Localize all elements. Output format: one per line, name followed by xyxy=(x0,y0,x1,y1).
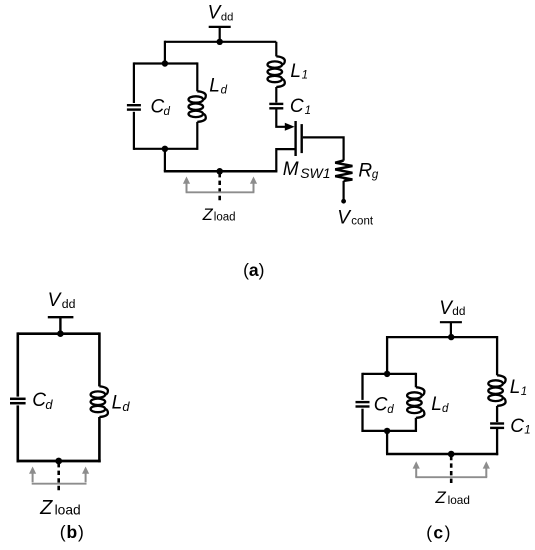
svg-text:d: d xyxy=(387,404,394,416)
svg-text:load: load xyxy=(448,493,470,507)
wire gate lead (a) xyxy=(303,137,344,160)
Zload arrow right (a) xyxy=(250,177,257,193)
wire L1 to C1 (c) xyxy=(496,406,498,422)
node Zload dashed stub (b) xyxy=(57,463,60,491)
svg-text:SW1: SW1 xyxy=(300,165,330,181)
wire C1 to drain (a) xyxy=(276,109,286,126)
caption (b) xyxy=(60,522,85,542)
svg-text:L: L xyxy=(209,75,220,96)
node Zload dashed stub (a) xyxy=(218,173,221,203)
caption (a) xyxy=(243,260,264,280)
svg-text:Z: Z xyxy=(434,488,446,507)
node Zload dashed stub (c) xyxy=(450,456,453,486)
svg-text:dd: dd xyxy=(452,304,465,318)
supply Vdd symbol (a) xyxy=(209,27,231,42)
svg-text:1: 1 xyxy=(521,386,527,398)
wire Rg to Vcont (a) xyxy=(343,181,345,200)
label C1 (a) xyxy=(290,96,311,117)
label Cd (b) xyxy=(32,390,53,412)
supply Vdd symbol (c) xyxy=(440,322,462,337)
wire Cd upper lead (a) xyxy=(133,62,135,103)
svg-text:C: C xyxy=(374,395,388,416)
label Vcont (a) xyxy=(337,207,374,228)
capacitor C1 (a) xyxy=(269,104,283,108)
label Ld (c) xyxy=(431,394,449,415)
wire inner top rail (a) xyxy=(134,62,197,64)
svg-text:V: V xyxy=(337,207,352,228)
inductor L1 (c) xyxy=(488,375,505,406)
svg-text:(b): (b) xyxy=(60,522,85,542)
wire inner bottom rail (c) xyxy=(363,430,416,432)
Zload bracket line (a) xyxy=(186,191,255,193)
svg-text:L: L xyxy=(510,377,521,398)
label C1 (c) xyxy=(510,416,530,437)
node junction top rail (a) xyxy=(217,39,223,45)
svg-text:(a): (a) xyxy=(243,260,264,280)
label Zload (a) xyxy=(202,206,236,224)
Zload arrow right (c) xyxy=(483,461,490,477)
label L1 (c) xyxy=(510,377,528,398)
svg-text:d: d xyxy=(164,106,171,118)
node terminal Vcont (a) xyxy=(341,199,346,204)
node junction bottom rail (b) xyxy=(55,458,62,465)
node junction bottom rail (a) xyxy=(216,168,223,175)
Zload arrow left (c) xyxy=(413,461,420,477)
wire Ld upper lead (b) xyxy=(98,332,101,386)
transistor M_SW1 gate bar (a) xyxy=(301,124,303,153)
svg-text:C: C xyxy=(32,390,46,411)
label Vdd (b) xyxy=(48,290,76,311)
wire L1 upper lead (a) xyxy=(275,42,277,57)
caption (c) xyxy=(426,522,452,542)
svg-text:R: R xyxy=(358,160,372,181)
wire top rail (a) xyxy=(165,41,276,43)
node junction inner top (a) xyxy=(162,60,168,66)
node junction bottom rail (c) xyxy=(448,451,455,458)
Zload bracket line (b) xyxy=(32,483,87,485)
wire left drop (a) xyxy=(164,41,166,64)
Zload bracket line (c) xyxy=(415,476,487,478)
wire stub to bottom rail (c) xyxy=(386,431,388,454)
wire Ld upper lead (a) xyxy=(196,62,198,91)
label Zload (b) xyxy=(39,497,81,519)
svg-text:g: g xyxy=(372,169,379,181)
inductor Ld (b) xyxy=(91,386,108,417)
label Vdd (a) xyxy=(208,3,234,24)
svg-text:load: load xyxy=(214,212,236,224)
wire L1 upper lead (c) xyxy=(496,336,498,375)
node junction top rail (b) xyxy=(57,330,64,337)
inductor Ld (c) xyxy=(407,387,424,418)
label Ld (b) xyxy=(112,393,131,415)
wire bottom rail (c) xyxy=(386,453,498,456)
wire Cd lower lead (c) xyxy=(361,409,363,432)
wire Cd upper lead (b) xyxy=(16,332,19,396)
label L1 (a) xyxy=(290,61,308,82)
svg-text:1: 1 xyxy=(305,105,311,117)
label Zload (c) xyxy=(434,488,470,507)
label M_SW1 (a) xyxy=(283,159,331,181)
capacitor Cd (b) xyxy=(10,399,26,403)
wire Ld upper lead (c) xyxy=(415,373,417,388)
wire Cd lower lead (b) xyxy=(16,405,19,462)
svg-text:C: C xyxy=(151,97,165,118)
wire inner bottom rail (a) xyxy=(134,148,197,150)
Zload arrow right (b) xyxy=(82,467,89,483)
wire top rail (c) xyxy=(387,336,497,338)
svg-text:L: L xyxy=(431,394,442,415)
capacitor Cd (a) xyxy=(127,105,141,109)
svg-text:d: d xyxy=(442,403,449,415)
svg-text:Z: Z xyxy=(39,497,53,519)
wire bottom rail (a) xyxy=(164,170,278,173)
capacitor C1 (c) xyxy=(490,424,504,428)
wire L1 to C1 (a) xyxy=(275,87,277,103)
Zload arrow left (b) xyxy=(29,467,36,483)
inductor L1 (a) xyxy=(268,56,285,87)
svg-text:L: L xyxy=(112,393,123,414)
capacitor Cd (c) xyxy=(356,402,370,406)
transistor M_SW1 channel line (a) xyxy=(294,121,296,156)
label Cd (c) xyxy=(374,395,394,416)
svg-text:V: V xyxy=(48,290,63,311)
wire source lead (a) xyxy=(276,149,294,171)
node junction inner bottom (c) xyxy=(384,428,390,434)
svg-text:1: 1 xyxy=(524,425,530,437)
svg-text:dd: dd xyxy=(221,12,233,24)
svg-text:Z: Z xyxy=(202,206,214,224)
svg-text:C: C xyxy=(510,416,524,437)
label Vdd (c) xyxy=(439,298,465,319)
wire Ld lower lead (b) xyxy=(98,417,101,462)
wire top rail (b) xyxy=(18,332,100,335)
wire stub to bottom rail (a) xyxy=(164,149,166,172)
label Cd (a) xyxy=(151,97,171,119)
svg-text:1: 1 xyxy=(302,69,308,81)
node junction inner top (c) xyxy=(384,371,390,377)
svg-text:L: L xyxy=(290,61,301,82)
wire Ld lower lead (a) xyxy=(196,122,198,150)
wire inner top rail (c) xyxy=(363,373,416,375)
wire bottom rail (b) xyxy=(17,460,101,463)
svg-text:cont: cont xyxy=(351,215,374,227)
svg-text:(c): (c) xyxy=(426,522,452,542)
svg-text:d: d xyxy=(122,399,130,414)
svg-text:d: d xyxy=(45,397,53,412)
wire left drop (c) xyxy=(386,336,388,374)
wire Cd upper lead (c) xyxy=(361,373,363,400)
Zload arrow left (a) xyxy=(183,177,190,193)
wire Cd lower lead (a) xyxy=(133,112,135,150)
supply Vdd symbol (b) xyxy=(48,317,74,334)
svg-text:load: load xyxy=(55,503,81,518)
resistor Rg (a) xyxy=(335,161,352,181)
node junction top rail (c) xyxy=(448,334,454,340)
label Ld (a) xyxy=(209,75,227,96)
svg-text:d: d xyxy=(221,84,228,96)
label Rg (a) xyxy=(358,160,379,181)
wire Ld lower lead (c) xyxy=(415,418,417,432)
wire C1 lower lead (c) xyxy=(496,429,498,455)
svg-text:C: C xyxy=(290,96,304,117)
node junction inner bottom (a) xyxy=(162,146,168,152)
svg-text:M: M xyxy=(283,159,299,180)
svg-text:dd: dd xyxy=(62,297,76,311)
inductor Ld (a) xyxy=(189,91,206,122)
drain arrow into M_SW1 (a) xyxy=(285,123,295,131)
